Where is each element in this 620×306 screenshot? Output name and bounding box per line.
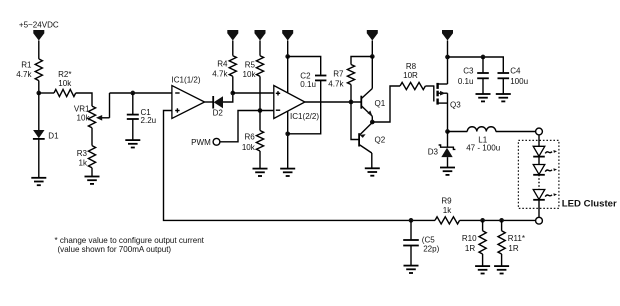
svg-text:R3: R3 <box>77 149 88 158</box>
resistor R7 <box>328 65 354 89</box>
svg-text:47 - 100u: 47 - 100u <box>466 144 500 153</box>
wire node A to D1 <box>38 93 40 130</box>
resistor R5 <box>243 56 264 79</box>
svg-text:1k: 1k <box>443 206 452 215</box>
wire node A to R2 <box>39 92 54 94</box>
svg-text:4.7k: 4.7k <box>212 69 228 78</box>
wire C1 to ground <box>132 119 134 140</box>
node C1 junction <box>130 91 135 96</box>
ground under IC1 V- <box>280 169 295 176</box>
wire C5 to ground <box>410 246 412 266</box>
svg-text:R1: R1 <box>21 61 32 70</box>
node G <box>370 54 375 59</box>
node B <box>230 91 235 96</box>
wire IC1a + input feedback <box>164 111 436 221</box>
wire R10 to ground <box>482 254 484 266</box>
power flag +5~24VDC <box>19 21 59 41</box>
wire R2 to VR1 <box>76 93 92 106</box>
wire V+ to R1 <box>38 41 40 59</box>
svg-text:R8: R8 <box>406 62 417 71</box>
wire flag to R4 <box>232 41 234 56</box>
node E on V- line <box>285 131 290 136</box>
svg-text:(value shown for 700mA output): (value shown for 700mA output) <box>58 245 172 254</box>
wire node N to R11 <box>501 220 503 230</box>
svg-text:22p): 22p) <box>423 244 439 253</box>
transistor Q1 <box>361 89 385 117</box>
svg-text:2.2u: 2.2u <box>141 116 157 125</box>
output terminal bottom <box>536 217 543 224</box>
wire LED3 to bottom terminal <box>538 200 540 218</box>
node C <box>258 108 263 113</box>
LED 1 <box>533 146 557 156</box>
svg-text:10k: 10k <box>242 143 256 152</box>
capacitor C2 <box>300 71 326 89</box>
svg-text:+5~24VDC: +5~24VDC <box>19 21 59 30</box>
svg-text:10k: 10k <box>77 114 91 123</box>
power flag above R5 <box>255 30 266 41</box>
ground under R3 <box>85 177 100 184</box>
resistor R9 <box>435 197 460 224</box>
dotted wire more LEDs <box>538 175 540 190</box>
output terminal top <box>536 128 543 135</box>
wire bottom rail <box>460 219 536 221</box>
wire R1 to node A <box>38 81 40 93</box>
ground under C3 <box>476 94 491 101</box>
wire Q2 collector to ground <box>371 153 373 168</box>
wire node J to C3 <box>482 57 484 72</box>
diode D2 <box>213 96 224 118</box>
svg-text:0.1u: 0.1u <box>300 80 316 89</box>
MOSFET Q3 <box>434 83 461 132</box>
svg-text:10k: 10k <box>58 79 72 88</box>
svg-text:IC1(1/2): IC1(1/2) <box>172 76 201 85</box>
op-amp U2 IC1(2/2) <box>274 86 320 121</box>
svg-text:R11*: R11* <box>508 234 525 243</box>
wire rail to C3/C4 <box>448 57 504 72</box>
resistor R11* <box>498 231 525 254</box>
svg-text:10R: 10R <box>403 71 418 80</box>
svg-text:1R: 1R <box>508 244 518 253</box>
svg-text:C4: C4 <box>510 67 521 76</box>
wire R5 to node C <box>259 76 261 110</box>
svg-text:R6: R6 <box>245 132 256 141</box>
wire node C to R6 <box>259 111 261 131</box>
ground under R6 <box>253 169 268 176</box>
power flag above Q1 <box>367 30 378 41</box>
diode D3 schottky <box>428 145 456 157</box>
wire node F down to Q2 base <box>351 102 359 140</box>
wire node M to R10 <box>482 220 484 230</box>
wire C4 to ground <box>502 78 504 93</box>
potentiometer VR1 <box>74 105 110 128</box>
ground under R11 <box>494 266 509 273</box>
wire IC1 V- pin to ground <box>287 110 289 168</box>
svg-text:R5: R5 <box>245 61 256 70</box>
wire VR1 wiper up to rail <box>109 93 111 118</box>
wire IC1 V+ pin <box>287 57 289 95</box>
wire D2 to node B <box>223 93 233 102</box>
node N R11 junction <box>499 218 504 223</box>
ground under C4 <box>496 94 511 101</box>
svg-text:R9: R9 <box>441 197 452 206</box>
op-amp U1 IC1(1/2) <box>172 76 205 119</box>
wire R11 to ground <box>501 254 503 266</box>
svg-text:Q3: Q3 <box>450 101 461 110</box>
node A <box>36 91 41 96</box>
resistor R3 <box>77 146 96 168</box>
svg-text:C3: C3 <box>463 67 474 76</box>
wire VR1 to R3 <box>91 128 93 146</box>
wire R6 to ground <box>259 151 261 168</box>
node I <box>445 55 450 60</box>
svg-text:100u: 100u <box>510 77 528 86</box>
wire IC1a output to D2 <box>205 101 214 103</box>
node H <box>370 120 375 125</box>
svg-text:VR1: VR1 <box>74 105 90 114</box>
wire D3 to ground <box>447 157 449 167</box>
wire flag to node I <box>447 41 449 58</box>
svg-text:R7: R7 <box>333 70 344 79</box>
node L C5 junction <box>409 218 414 223</box>
capacitor C4 <box>498 67 529 87</box>
svg-text:R2*: R2* <box>58 70 71 79</box>
ground under C5 <box>404 266 419 273</box>
wire PWM to IC1b - input <box>220 111 274 142</box>
svg-text:D1: D1 <box>48 132 59 141</box>
capacitor C1 <box>127 108 156 125</box>
capacitor C3 <box>458 67 489 87</box>
node K switch node <box>445 129 450 134</box>
svg-text:(C5: (C5 <box>422 235 435 244</box>
LED 3 <box>533 190 557 200</box>
node J C3 <box>481 55 486 60</box>
svg-text:1k: 1k <box>79 159 88 168</box>
svg-text:4.7k: 4.7k <box>16 70 32 79</box>
wire node L to C5 <box>410 220 412 239</box>
ground under D1 <box>31 178 46 185</box>
svg-text:4.7k: 4.7k <box>328 80 344 89</box>
resistor R1 <box>16 59 42 81</box>
wire R7 to node F <box>350 85 352 103</box>
resistor R10 <box>462 231 486 254</box>
svg-text:R10: R10 <box>462 234 477 243</box>
wire Q1 emitter to node H <box>371 116 373 122</box>
node M R10 junction <box>480 218 485 223</box>
svg-text:Q2: Q2 <box>375 136 386 145</box>
svg-text:Q1: Q1 <box>375 99 386 108</box>
wire node to C1 <box>132 93 134 114</box>
svg-text:R4: R4 <box>217 60 228 69</box>
LED cluster dashed box <box>518 140 559 208</box>
wire LED1 to LED2 <box>538 157 540 165</box>
ground under C1 <box>125 140 140 147</box>
diode D1 <box>33 130 59 141</box>
wire flag to node D <box>287 41 289 57</box>
node D <box>285 54 290 59</box>
LED 2 <box>533 165 557 175</box>
wire node D to C2 <box>288 57 321 75</box>
resistor R8 <box>400 62 425 89</box>
svg-text:D2: D2 <box>213 109 224 118</box>
svg-text:LED Cluster: LED Cluster <box>562 199 617 210</box>
wire Q3 drain to node I <box>447 57 449 84</box>
wire R3 to ground <box>91 168 93 176</box>
power flag above R4 <box>227 30 238 41</box>
node F R7/Q1 base <box>349 100 354 105</box>
svg-text:1R: 1R <box>465 244 475 253</box>
resistor R4 <box>212 56 236 79</box>
wire D1 to ground <box>38 139 40 178</box>
svg-text:* change value to configure ou: * change value to configure output curre… <box>55 236 205 245</box>
ground under R10 <box>475 266 490 273</box>
svg-text:10k: 10k <box>243 70 257 79</box>
inductor L1 <box>448 127 536 153</box>
wire node K to D3 <box>447 132 449 148</box>
wire Q1 collector to node G <box>371 57 373 89</box>
wire node B to IC1b + input <box>233 92 274 94</box>
ground under Q2 <box>365 168 380 175</box>
ground under D3 <box>440 168 455 175</box>
note text <box>55 236 205 254</box>
power flag above Q3 <box>442 30 453 41</box>
capacitor C5 <box>403 235 439 253</box>
power flag above IC1 V+ <box>282 30 293 41</box>
resistor R2* <box>54 70 76 97</box>
svg-text:D3: D3 <box>428 148 439 157</box>
wire IC1b output to Q1 base <box>305 101 361 103</box>
wire node G jog to R7 <box>351 57 372 65</box>
wire flag to node G <box>371 41 373 57</box>
wire rail to IC1 inverting input <box>110 92 172 94</box>
transistor Q2 <box>359 123 386 154</box>
wire C3 to ground <box>482 78 484 93</box>
wire node H to R8 <box>372 86 400 122</box>
wire terminal into box <box>538 135 540 147</box>
wire flag to R5 <box>259 41 261 56</box>
svg-text:IC1(2/2): IC1(2/2) <box>290 112 319 121</box>
svg-text:PWM: PWM <box>191 138 211 147</box>
svg-text:0.1u: 0.1u <box>458 77 474 86</box>
wire C2 to node E <box>288 80 321 133</box>
wire R8 to Q3 gate <box>425 85 433 87</box>
PWM input terminal <box>191 138 220 147</box>
resistor R6 <box>242 131 264 153</box>
wire R4 to node B <box>232 76 234 93</box>
